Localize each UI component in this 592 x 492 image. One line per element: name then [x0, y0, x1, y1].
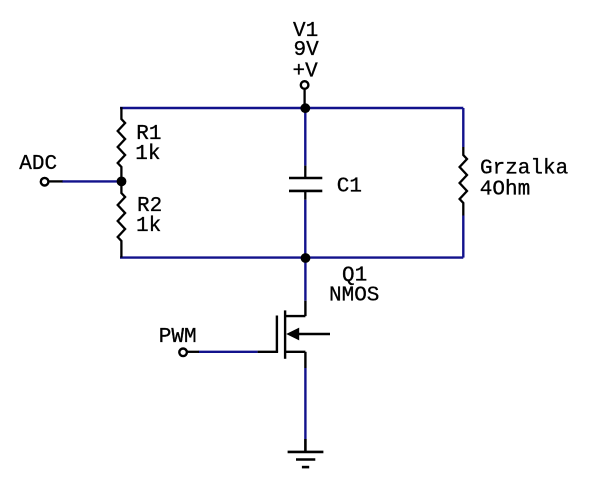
svg-text:1k: 1k [135, 143, 160, 166]
svg-text:+V: +V [293, 61, 319, 84]
svg-text:PWM: PWM [159, 326, 197, 349]
svg-text:NMOS: NMOS [329, 285, 379, 308]
svg-text:9V: 9V [294, 39, 320, 62]
svg-text:4Ohm: 4Ohm [480, 179, 530, 202]
svg-text:Grzalka: Grzalka [480, 158, 568, 181]
svg-text:ADC: ADC [19, 153, 57, 176]
svg-text:C1: C1 [337, 176, 362, 199]
svg-text:1k: 1k [136, 215, 161, 238]
